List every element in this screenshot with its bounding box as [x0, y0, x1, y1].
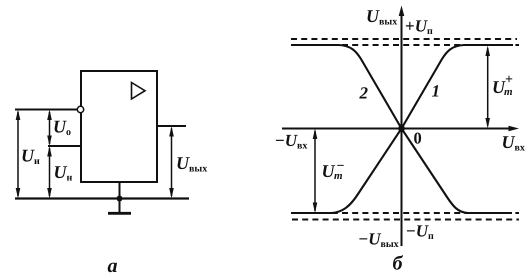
- svg-text:+: +: [505, 73, 513, 88]
- dashed line +Uп: [291, 38, 517, 40]
- svg-text:б: б: [393, 253, 404, 275]
- svg-text:m: m: [504, 86, 513, 98]
- label Um−: [322, 159, 345, 182]
- vertical axis Uвых: [399, 6, 405, 247]
- wire: bottom rail: [15, 197, 189, 199]
- dashed line -Uп: [292, 218, 519, 220]
- inverting input circle: [77, 106, 83, 112]
- svg-text:0: 0: [414, 129, 422, 148]
- wire: non-inverting input: [48, 145, 81, 147]
- svg-text:1: 1: [432, 82, 441, 101]
- dimension arrow Uвых: [169, 126, 174, 199]
- dashed saturation level bottom: [291, 212, 519, 214]
- junction dot: [117, 196, 123, 202]
- dimension arrow Uо: [47, 110, 52, 147]
- dimension arrow Um−: [313, 129, 318, 214]
- label Um+: [492, 73, 513, 99]
- wire: block to rail: [119, 182, 121, 199]
- horizontal axis Uвх: [282, 126, 519, 132]
- curve 2: [291, 45, 512, 213]
- svg-text:−: −: [337, 159, 345, 174]
- svg-text:а: а: [108, 255, 118, 276]
- comparator triangle symbol: [132, 83, 146, 100]
- dashed saturation level top: [291, 44, 519, 46]
- curve 1: [291, 45, 513, 213]
- origin dot: [398, 125, 405, 132]
- ground: [108, 199, 131, 214]
- svg-text:2: 2: [359, 84, 369, 103]
- wire: inverting input: [15, 109, 77, 111]
- wire: output: [157, 125, 186, 127]
- comparator block U1: [81, 71, 157, 182]
- dimension arrow Uи: [16, 110, 21, 199]
- dimension arrow Uн: [47, 146, 52, 199]
- dimension arrow Um+: [485, 46, 490, 129]
